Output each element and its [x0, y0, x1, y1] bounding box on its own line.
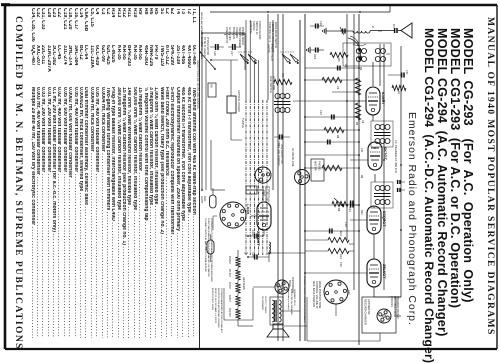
capacitor C17 top: [388, 70, 408, 78]
text automatic record changer: [364, 299, 372, 325]
wire bottom runs: [211, 60, 248, 253]
svg-text:LINE SWITCH: LINE SWITCH: [225, 27, 228, 43]
svg-text:WAVE POSITION TONE: WAVE POSITION TONE: [318, 281, 321, 309]
tube V4 25L6GT: [367, 259, 387, 287]
heater box: [224, 288, 253, 320]
svg-text:WAVE BAND SWITCH: WAVE BAND SWITCH: [274, 22, 278, 48]
page header: [485, 17, 496, 336]
parts list: [26, 8, 196, 346]
svg-text:C16: C16: [213, 51, 216, 56]
line filter cap C17b: [228, 44, 241, 56]
switch S1a: [280, 52, 300, 64]
model title line 2: [448, 28, 462, 308]
mid rail 3: [346, 14, 348, 240]
svg-text:I.F. PEAKED AT 456 K.C.: I.F. PEAKED AT 456 K.C.: [394, 140, 398, 174]
svg-text:PHONO RADIO: PHONO RADIO: [258, 21, 262, 39]
text speaker socket mounted: [303, 276, 306, 323]
svg-text:SPEAKER SOCKET MOUNTED ON SPEA: SPEAKER SOCKET MOUNTED ON SPEAKER: [303, 276, 306, 323]
wire ant to tube: [373, 31, 382, 86]
bottom rule: [199, 5, 201, 349]
cap C15 cluster: [307, 47, 324, 60]
svg-text:R13: R13: [339, 254, 343, 259]
svg-text:SW.: SW.: [210, 84, 213, 89]
svg-text:6A8GT: 6A8GT: [228, 295, 231, 303]
record changer box: [362, 297, 396, 333]
svg-text:C18: C18: [344, 222, 347, 227]
svg-text:R2: R2: [359, 67, 362, 71]
svg-text:LINE SWITCH ON: LINE SWITCH ON: [280, 144, 283, 164]
publisher line: [406, 112, 418, 326]
electrolytic C35: [248, 252, 269, 260]
resistor R12: [328, 231, 349, 242]
svg-text:R4: R4: [397, 91, 400, 95]
phono plug circle: [255, 167, 271, 183]
svg-text:OF CHASSIS): OF CHASSIS): [261, 186, 264, 201]
text speaker socket: [390, 296, 399, 319]
svg-text:R8: R8: [336, 135, 339, 139]
resistor R4 top: [392, 85, 406, 94]
extra junctions: [201, 32, 360, 258]
text ac or dc line: [291, 148, 294, 167]
resistor R5: [274, 73, 292, 84]
svg-text:AC ON OFF: AC ON OFF: [228, 27, 231, 41]
svg-text:6SQ7GT: 6SQ7GT: [228, 308, 230, 318]
svg-text:C15: C15: [313, 54, 317, 60]
svg-text:(REAR APRON: (REAR APRON: [264, 186, 267, 203]
svg-text:SPEAKER PLUG: SPEAKER PLUG: [293, 289, 296, 306]
capacitor C13: [310, 21, 324, 29]
extra labels: [319, 64, 364, 295]
output transformer: [261, 289, 296, 325]
antenna: [398, 23, 412, 38]
wave band switch text: [268, 22, 278, 53]
tube V2 6K7GT: [368, 142, 388, 170]
svg-text:C: C: [371, 26, 375, 29]
rail above tubes: [383, 44, 385, 290]
wire changer: [307, 297, 401, 341]
model title line 3: [435, 28, 449, 337]
pilot light: [200, 188, 216, 208]
svg-text:C17: C17: [405, 70, 408, 75]
electrolytic C34: [248, 230, 264, 239]
svg-text:VOLTAGES NOT SHOWN ARE MEASURE: VOLTAGES NOT SHOWN ARE MEASURED BETWEEN …: [210, 218, 213, 282]
ballast note: [211, 288, 223, 333]
svg-text:DIAL: DIAL: [203, 196, 206, 202]
svg-text:C20: C20: [347, 290, 350, 295]
resistor R6: [330, 52, 348, 62]
svg-text:AC ON OFF: AC ON OFF: [272, 76, 276, 91]
text phono plug label: [261, 186, 270, 203]
svg-text:C19: C19: [339, 262, 342, 267]
svg-text:MAX. BASS POSITION: MAX. BASS POSITION: [312, 281, 315, 307]
phono radio switch text: [249, 21, 262, 39]
anchorage hole: [275, 277, 294, 294]
right vert wires: [246, 190, 401, 326]
text tone control: [312, 281, 321, 309]
bottom ac wires: [202, 33, 245, 190]
svg-text:IN RADIO: IN RADIO: [235, 27, 238, 38]
ground ant: [323, 28, 328, 34]
svg-text:CONTROL, VOLUME IN: CONTROL, VOLUME IN: [315, 281, 318, 309]
wire top rail: [400, 31, 402, 298]
footer credit: [13, 16, 23, 350]
svg-text:L-M326: L-M326: [246, 204, 250, 215]
trimmer caps 6SQ7: [398, 180, 405, 192]
svg-text:R10: R10: [360, 210, 363, 215]
wire power: [246, 190, 264, 236]
tube V5 25Z6GT: [256, 202, 271, 246]
svg-text:R3: R3: [355, 122, 358, 126]
heater string: [228, 256, 246, 319]
svg-text:C11: C11: [360, 148, 363, 153]
dial light 2: [207, 234, 214, 262]
osc coil: [274, 94, 350, 113]
ladder resistors: [322, 77, 344, 170]
svg-text:PHONO MOTOR: PHONO MOTOR: [206, 37, 209, 56]
svg-text:PHONO RADIO: PHONO RADIO: [241, 27, 244, 45]
svg-text:VOLUME CONTROL: VOLUME CONTROL: [277, 144, 280, 167]
svg-text:LIGHTS: LIGHTS: [267, 44, 270, 53]
ac wires long: [268, 14, 283, 341]
plug circle 2: [295, 170, 310, 185]
model title line 4: [422, 28, 436, 363]
text motor board: [200, 12, 203, 60]
ladder verticals: [305, 68, 359, 231]
svg-text:C8: C8: [361, 120, 364, 124]
text line switch: [277, 144, 283, 167]
svg-text:C17: C17: [230, 51, 233, 56]
svg-text:C21: C21: [348, 207, 352, 212]
ballast socket L-M326: [220, 202, 250, 228]
svg-text:TUNING: TUNING: [241, 118, 245, 128]
antenna coil T1: [340, 26, 375, 33]
svg-text:C5: C5: [336, 86, 339, 90]
svg-text:RADIO PHONO SW. ON VOLUME CONT: RADIO PHONO SW. ON VOLUME CONTROL: [196, 60, 199, 110]
cap C21: [348, 201, 353, 213]
svg-text:6A8GT: 6A8GT: [381, 92, 386, 105]
svg-text:C13: C13: [319, 21, 322, 26]
svg-text:HOLE: HOLE: [288, 280, 291, 287]
coil windings B: [353, 44, 367, 62]
tuning arrow: [350, 36, 361, 52]
svg-text:25L6GT: 25L6GT: [228, 269, 230, 278]
on off switch lever: [199, 37, 216, 70]
coil assembly box: [343, 43, 391, 66]
bus wire B1: [304, 14, 306, 341]
text radio phono sw: [196, 60, 199, 110]
line filter cap C16b: [210, 44, 224, 56]
volume control R8: [332, 198, 348, 212]
tube V1 6A8GT: [366, 87, 386, 115]
ac dc switch box: [208, 83, 216, 97]
more ladder: [305, 92, 359, 251]
crystal pickup: [227, 60, 242, 140]
svg-text:6K7GT: 6K7GT: [228, 282, 230, 290]
svg-text:AC OR DC LINE: AC OR DC LINE: [291, 148, 294, 167]
text tuning: [241, 118, 245, 128]
i-f transformer T3: [371, 182, 393, 208]
svg-text:4 NO. 47 PILOT: 4 NO. 47 PILOT: [270, 44, 273, 62]
svg-text:PHONO PLUG: PHONO PLUG: [267, 186, 270, 202]
text if peak: [394, 140, 398, 174]
svg-text:LIGHT: LIGHT: [200, 196, 203, 204]
svg-text:C1: C1: [392, 24, 396, 28]
ballast note 2: [204, 218, 213, 282]
svg-text:R9: R9: [360, 175, 363, 179]
speaker: [267, 324, 289, 337]
svg-text:OR CABLE FROM: OR CABLE FROM: [393, 296, 396, 317]
bus wire AVC: [354, 14, 359, 345]
trimmer C6A: [328, 27, 345, 35]
svg-text:SWITCH VIEWED: SWITCH VIEWED: [238, 27, 241, 48]
resistor R13: [328, 248, 349, 259]
svg-text:25Z6GT: 25Z6GT: [256, 231, 261, 246]
svg-text:R12: R12: [339, 231, 343, 236]
svg-text:TO BE PLUGGED: TO BE PLUGGED: [203, 37, 206, 57]
svg-text:OUTPUT TRANS.: OUTPUT TRANS.: [264, 296, 267, 314]
model title line 1: [461, 28, 475, 303]
phono text block 2: [225, 27, 244, 48]
svg-text:C14: C14: [319, 110, 322, 115]
svg-text:25Z6GT: 25Z6GT: [228, 256, 230, 265]
resistor R3 h: [355, 103, 361, 126]
record changer socket: [377, 309, 391, 323]
resistor R2 h: [355, 67, 362, 95]
cable bundle wires: [246, 20, 267, 255]
speaker socket circle: [324, 280, 348, 304]
svg-text:POSITION: POSITION: [232, 27, 235, 39]
junction dots: [304, 67, 360, 274]
bus wire B2: [299, 20, 301, 341]
tube V3 6SQ7GT: [367, 206, 387, 234]
filter choke: [269, 242, 271, 262]
capacitor C1: [370, 24, 397, 33]
cable junction box: [246, 186, 257, 194]
ac line cord: [202, 33, 245, 36]
svg-text:R6: R6: [337, 58, 341, 62]
coil windings A: [375, 49, 390, 62]
ladder caps: [328, 66, 353, 234]
band switch arc: [348, 38, 362, 61]
svg-text:VOLTAGES MEASURED AT PINS OF B: VOLTAGES MEASURED AT PINS OF BALLAST: [220, 288, 223, 333]
ac line switch text: [269, 76, 276, 93]
svg-text:CHASSIS: CHASSIS: [390, 296, 393, 307]
i-f transformer T2: [371, 121, 393, 147]
text pilot note: [267, 44, 273, 62]
svg-text:HEATERS: HEATERS: [242, 277, 246, 290]
svg-text:AUTOMATIC: AUTOMATIC: [367, 299, 371, 315]
left bus wire: [210, 5, 390, 13]
svg-text:6SQ7GT: 6SQ7GT: [382, 211, 387, 227]
svg-text:PHONO: PHONO: [318, 161, 322, 171]
capacitor C33: [274, 135, 290, 147]
phono motor box: [311, 159, 324, 181]
heater wires: [238, 250, 253, 326]
svg-text:25L6GT: 25L6GT: [382, 264, 387, 279]
svg-text:R8: R8: [337, 208, 340, 212]
row wires: [350, 101, 375, 297]
switch S1b: [238, 52, 258, 64]
svg-text:CRYSTAL PICKUP: CRYSTAL PICKUP: [237, 90, 241, 112]
wire right drops: [305, 273, 401, 341]
